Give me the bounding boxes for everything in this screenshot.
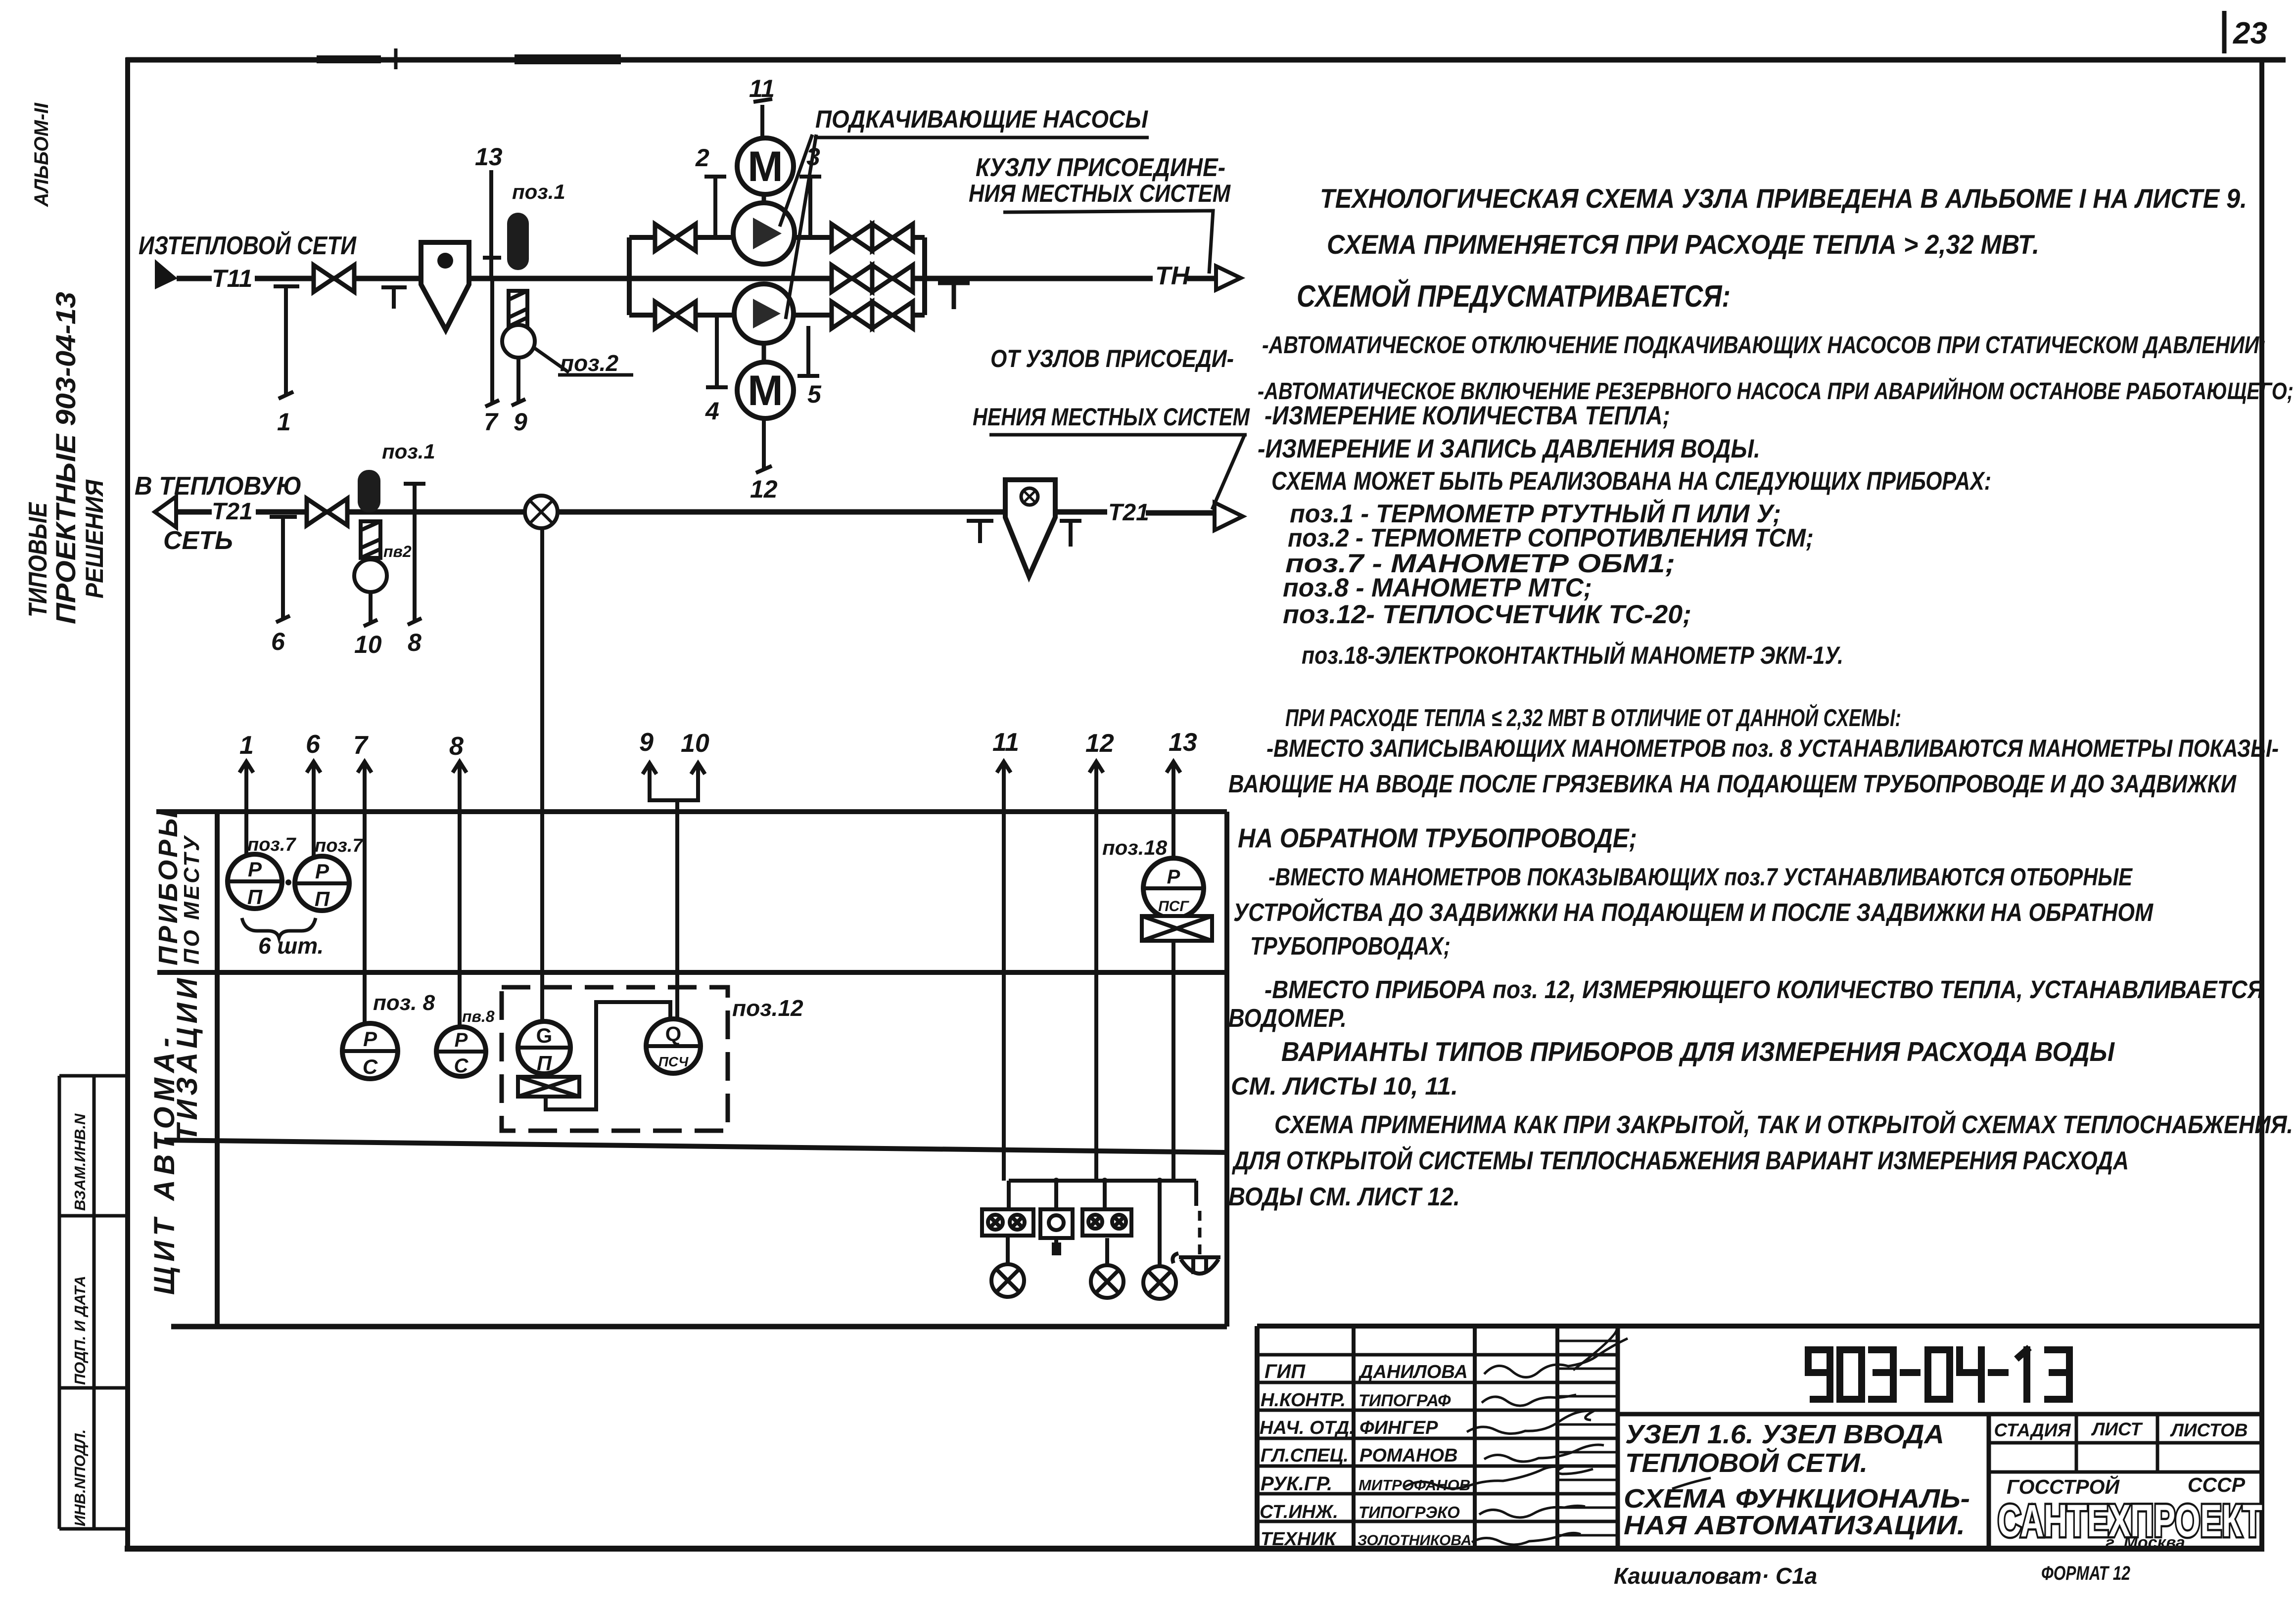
svg-text:ПРИБОРЫ: ПРИБОРЫ <box>153 808 183 965</box>
svg-text:МИТРОФАНОВ: МИТРОФАНОВ <box>1359 1476 1470 1494</box>
svg-text:-ВМЕСТО ПРИБОРА поз. 12, ИЗ: -ВМЕСТО ПРИБОРА поз. 12, ИЗМЕРЯЮЩЕГО КОЛ… <box>1265 975 2265 1004</box>
svg-text:ГИП: ГИП <box>1265 1361 1306 1382</box>
svg-text:ГОССТРОЙ: ГОССТРОЙ <box>2007 1475 2120 1498</box>
svg-text:УЗЕЛ 1.6. УЗЕЛ ВВОДА: УЗЕЛ 1.6. УЗЕЛ ВВОДА <box>1625 1420 1944 1449</box>
svg-text:ОТ УЗЛОВ ПРИСОЕДИ-: ОТ УЗЛОВ ПРИСОЕДИ- <box>990 345 1234 372</box>
svg-text:Кашиаловат· С1а: Кашиаловат· С1а <box>1614 1563 1817 1589</box>
svg-text:М: М <box>748 367 783 414</box>
svg-text:СМ. ЛИСТЫ 10, 11.: СМ. ЛИСТЫ 10, 11. <box>1231 1072 1458 1100</box>
svg-text:ВАРИАНТЫ ТИПОВ ПРИБОРОВ ДЛ: ВАРИАНТЫ ТИПОВ ПРИБОРОВ ДЛЯ ИЗМЕРЕНИЯ РА… <box>1281 1036 2115 1067</box>
svg-text:13: 13 <box>475 143 503 171</box>
svg-text:ТН: ТН <box>1155 262 1190 290</box>
svg-text:ТЕПЛОВОЙ СЕТИ.: ТЕПЛОВОЙ СЕТИ. <box>1625 1447 1868 1478</box>
svg-text:РУК.ГР.: РУК.ГР. <box>1261 1473 1332 1495</box>
svg-text:ГЛ.СПЕЦ.: ГЛ.СПЕЦ. <box>1261 1445 1349 1466</box>
svg-text:ТИЗАЦИИ: ТИЗАЦИИ <box>171 974 203 1142</box>
svg-text:СХЕМА ФУНКЦИОНАЛЬ-: СХЕМА ФУНКЦИОНАЛЬ- <box>1624 1484 1970 1514</box>
svg-text:ИНВ.NПОДЛ.: ИНВ.NПОДЛ. <box>71 1429 89 1526</box>
svg-text:поз.12- ТЕПЛОСЧЕТЧИК ТС-20;: поз.12- ТЕПЛОСЧЕТЧИК ТС-20; <box>1283 600 1691 629</box>
svg-text:8: 8 <box>449 732 464 761</box>
svg-text:-ВМЕСТО ЗАПИСЫВАЮЩИХ МАНОМЕТ: -ВМЕСТО ЗАПИСЫВАЮЩИХ МАНОМЕТРОВ поз. 8 У… <box>1266 735 2279 762</box>
svg-text:ФИНГЕР: ФИНГЕР <box>1359 1418 1438 1438</box>
svg-text:РЕШЕНИЯ: РЕШЕНИЯ <box>81 479 108 598</box>
svg-text:ЛИСТ: ЛИСТ <box>2091 1419 2143 1439</box>
svg-text:поз.1: поз.1 <box>512 180 565 203</box>
svg-text:ЗОЛОТНИКОВА: ЗОЛОТНИКОВА <box>1358 1532 1472 1549</box>
svg-text:поз.2 - ТЕРМОМЕТР СОПРОТИВЛЕНИ: поз.2 - ТЕРМОМЕТР СОПРОТИВЛЕНИЯ ТСМ; <box>1288 524 1814 552</box>
svg-text:13: 13 <box>1169 728 1197 757</box>
svg-text:РОМАНОВ: РОМАНОВ <box>1359 1445 1457 1466</box>
svg-text:г. Москва: г. Москва <box>2106 1533 2185 1552</box>
svg-text:1: 1 <box>277 408 291 436</box>
svg-text:поз.18: поз.18 <box>1102 836 1168 859</box>
svg-text:ПОДП. И ДАТА: ПОДП. И ДАТА <box>71 1276 89 1385</box>
svg-text:G: G <box>536 1024 553 1047</box>
svg-text:Р: Р <box>248 858 262 881</box>
svg-text:ИЗТЕПЛОВОЙ СЕТИ: ИЗТЕПЛОВОЙ СЕТИ <box>139 230 357 260</box>
svg-text:-ИЗМЕРЕНИЕ И ЗАПИСЬ ДАВЛЕНИЯ: -ИЗМЕРЕНИЕ И ЗАПИСЬ ДАВЛЕНИЯ ВОДЫ. <box>1258 434 1760 463</box>
svg-text:-АВТОМАТИЧЕСКОЕ ОТКЛЮЧЕНИЕ ПОД: -АВТОМАТИЧЕСКОЕ ОТКЛЮЧЕНИЕ ПОДКАЧИВАЮЩИХ… <box>1262 332 2266 359</box>
svg-text:П: П <box>537 1052 552 1075</box>
svg-text:ТЕХНИК: ТЕХНИК <box>1261 1529 1337 1550</box>
svg-text:СТ.ИНЖ.: СТ.ИНЖ. <box>1260 1502 1338 1522</box>
svg-text:НИЯ МЕСТНЫХ СИСТЕМ: НИЯ МЕСТНЫХ СИСТЕМ <box>969 180 1231 207</box>
svg-text:поз.2: поз.2 <box>560 350 618 376</box>
svg-text:ТИПОГРЭКО: ТИПОГРЭКО <box>1359 1503 1460 1521</box>
svg-text:10: 10 <box>354 631 382 658</box>
svg-text:ЛИСТОВ: ЛИСТОВ <box>2170 1420 2248 1440</box>
svg-text:ВАЮЩИЕ НА ВВОДЕ ПОСЛЕ ГРЯЗЕВ: ВАЮЩИЕ НА ВВОДЕ ПОСЛЕ ГРЯЗЕВИКА НА ПОДАЮ… <box>1228 770 2237 798</box>
svg-text:ТЕХНОЛОГИЧЕСКАЯ СХЕМА УЗЛА: ТЕХНОЛОГИЧЕСКАЯ СХЕМА УЗЛА ПРИВЕДЕНА В А… <box>1320 183 2247 214</box>
svg-text:ДЛЯ ОТКРЫТОЙ СИСТЕМЫ ТЕПЛОСНА: ДЛЯ ОТКРЫТОЙ СИСТЕМЫ ТЕПЛОСНАБЖЕНИЯ ВАРИ… <box>1232 1146 2129 1175</box>
svg-text:10: 10 <box>681 729 709 758</box>
svg-text:КУЗЛУ ПРИСОЕДИНЕ-: КУЗЛУ ПРИСОЕДИНЕ- <box>976 153 1225 182</box>
svg-text:АЛЬБОМ-II: АЛЬБОМ-II <box>31 102 52 207</box>
svg-text:1: 1 <box>239 731 254 760</box>
svg-text:Р: Р <box>455 1029 468 1051</box>
svg-text:6: 6 <box>271 628 285 655</box>
svg-text:8: 8 <box>408 629 422 656</box>
svg-text:ДАНИЛОВА: ДАНИЛОВА <box>1358 1362 1468 1382</box>
svg-text:-ИЗМЕРЕНИЕ КОЛИЧЕСТВА ТЕПЛА;: -ИЗМЕРЕНИЕ КОЛИЧЕСТВА ТЕПЛА; <box>1265 401 1670 430</box>
svg-text:Т21: Т21 <box>212 499 253 525</box>
svg-text:СХЕМОЙ ПРЕДУСМАТРИВАЕТСЯ:: СХЕМОЙ ПРЕДУСМАТРИВАЕТСЯ: <box>1297 278 1731 314</box>
svg-text:-АВТОМАТИЧЕСКОЕ ВКЛЮЧЕНИЕ РЕЗЕ: -АВТОМАТИЧЕСКОЕ ВКЛЮЧЕНИЕ РЕЗЕРВНОГО НАС… <box>1258 377 2294 405</box>
svg-text:6 шт.: 6 шт. <box>258 933 324 959</box>
svg-text:СТАДИЯ: СТАДИЯ <box>1994 1420 2071 1440</box>
svg-text:11: 11 <box>749 75 775 102</box>
svg-text:П: П <box>247 885 263 909</box>
svg-text:НАЯ АВТОМАТИЗАЦИИ.: НАЯ АВТОМАТИЗАЦИИ. <box>1624 1511 1965 1540</box>
svg-text:С: С <box>454 1055 469 1077</box>
svg-text:ФОРМАТ 12: ФОРМАТ 12 <box>2041 1562 2130 1584</box>
svg-text:7: 7 <box>484 408 499 436</box>
svg-text:НА ОБРАТНОМ ТРУБОПРОВОДЕ;: НА ОБРАТНОМ ТРУБОПРОВОДЕ; <box>1238 823 1637 853</box>
svg-text:СХЕМА ПРИМЕНИМА КАК ПРИ ЗАКРЫ: СХЕМА ПРИМЕНИМА КАК ПРИ ЗАКРЫТОЙ, ТАК И … <box>1274 1109 2293 1139</box>
svg-text:-ВМЕСТО МАНОМЕТРОВ ПОКАЗЫВАЮ: -ВМЕСТО МАНОМЕТРОВ ПОКАЗЫВАЮЩИХ поз.7 УС… <box>1268 863 2133 891</box>
svg-text:поз.8 - МАНОМЕТР МТС;: поз.8 - МАНОМЕТР МТС; <box>1283 573 1592 602</box>
svg-text:11: 11 <box>992 728 1019 757</box>
svg-text:В ТЕПЛОВУЮ: В ТЕПЛОВУЮ <box>135 472 302 501</box>
svg-text:ПРОЕКТНЫЕ 903-04-13: ПРОЕКТНЫЕ 903-04-13 <box>50 292 81 624</box>
svg-text:ПРИ РАСХОДЕ ТЕПЛА ≤ 2,32 МВТ: ПРИ РАСХОДЕ ТЕПЛА ≤ 2,32 МВТ В ОТЛИЧИЕ О… <box>1285 704 1901 732</box>
svg-text:поз.12: поз.12 <box>732 995 803 1021</box>
svg-text:СХЕМА ПРИМЕНЯЕТСЯ ПРИ РАСХО: СХЕМА ПРИМЕНЯЕТСЯ ПРИ РАСХОДЕ ТЕПЛА > 2,… <box>1327 229 2039 260</box>
svg-text:7: 7 <box>353 731 369 760</box>
svg-text:поз.18-ЭЛЕКТРОКОНТАКТНЫЙ МАНО: поз.18-ЭЛЕКТРОКОНТАКТНЫЙ МАНОМЕТР ЭКМ-1У… <box>1302 641 1843 669</box>
svg-text:9: 9 <box>639 728 654 757</box>
svg-text:ТИПОГРАФ: ТИПОГРАФ <box>1359 1391 1451 1410</box>
svg-text:М: М <box>748 143 783 190</box>
svg-text:Т11: Т11 <box>212 265 252 292</box>
svg-text:поз.1: поз.1 <box>382 440 435 463</box>
svg-text:пв2: пв2 <box>383 543 412 560</box>
svg-text:СЕТЬ: СЕТЬ <box>163 526 233 555</box>
svg-text:12: 12 <box>1085 729 1114 758</box>
svg-text:СССР: СССР <box>2188 1473 2246 1496</box>
svg-text:4: 4 <box>705 397 719 425</box>
svg-text:5: 5 <box>807 380 822 408</box>
svg-text:С: С <box>363 1055 378 1078</box>
svg-text:П: П <box>315 887 330 911</box>
svg-text:ПСГ: ПСГ <box>1158 898 1189 915</box>
svg-text:Н.КОНТР.: Н.КОНТР. <box>1261 1390 1346 1411</box>
svg-text:НАЧ. ОТД.: НАЧ. ОТД. <box>1260 1418 1355 1438</box>
svg-text:6: 6 <box>306 730 321 759</box>
svg-text:ПСЧ: ПСЧ <box>658 1054 689 1069</box>
svg-text:пв.8: пв.8 <box>462 1008 495 1025</box>
svg-text:ВЗАМ.ИНВ.N: ВЗАМ.ИНВ.N <box>71 1113 89 1211</box>
svg-text:12: 12 <box>750 475 778 503</box>
svg-text:ВОДЫ СМ. ЛИСТ 12.: ВОДЫ СМ. ЛИСТ 12. <box>1228 1183 1460 1211</box>
svg-text:Q: Q <box>665 1022 682 1046</box>
svg-text:Р: Р <box>1167 866 1180 888</box>
svg-text:ТИПОВЫЕ: ТИПОВЫЕ <box>24 502 52 617</box>
svg-text:УСТРОЙСТВА ДО ЗАДВИЖКИ НА П: УСТРОЙСТВА ДО ЗАДВИЖКИ НА ПОДАЮЩЕМ И ПОС… <box>1233 897 2154 926</box>
svg-text:ПОДКАЧИВАЮЩИЕ НАСОСЫ: ПОДКАЧИВАЮЩИЕ НАСОСЫ <box>815 105 1148 133</box>
svg-text:2: 2 <box>695 144 709 172</box>
svg-text:23: 23 <box>2233 16 2267 50</box>
svg-text:Р: Р <box>363 1027 377 1051</box>
svg-text:9: 9 <box>514 408 527 436</box>
svg-text:ТРУБОПРОВОДАХ;: ТРУБОПРОВОДАХ; <box>1250 932 1451 960</box>
svg-text:НЕНИЯ МЕСТНЫХ СИСТЕМ: НЕНИЯ МЕСТНЫХ СИСТЕМ <box>973 403 1250 431</box>
svg-text:СХЕМА МОЖЕТ БЫТЬ РЕАЛИЗОВАНА Н: СХЕМА МОЖЕТ БЫТЬ РЕАЛИЗОВАНА НА СЛЕДУЮЩИ… <box>1271 467 1991 496</box>
svg-text:ВОДОМЕР.: ВОДОМЕР. <box>1228 1004 1347 1033</box>
svg-text:поз.7: поз.7 <box>315 835 364 856</box>
svg-text:ПО МЕСТУ: ПО МЕСТУ <box>180 834 204 964</box>
svg-text:Т21: Т21 <box>1108 500 1149 526</box>
svg-text:поз. 8: поз. 8 <box>373 991 435 1015</box>
svg-text:Р: Р <box>315 860 329 883</box>
